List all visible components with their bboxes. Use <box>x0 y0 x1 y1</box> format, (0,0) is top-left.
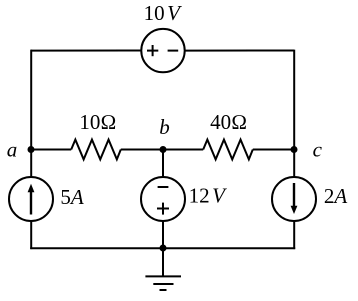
ground <box>145 248 181 290</box>
wire left vertical upper (top rail to node a) <box>30 50 32 150</box>
wire left vertical lower (5A source to bottom rail) <box>30 150 32 178</box>
svg-text:2A: 2A <box>324 184 348 208</box>
node a (junction dot) <box>28 146 35 153</box>
svg-text:b: b <box>159 115 170 139</box>
svg-text:12 V: 12 V <box>189 184 228 208</box>
wire 12V source to bottom rail <box>162 221 164 249</box>
svg-text:10Ω: 10Ω <box>79 110 116 134</box>
node c (junction dot) <box>291 146 298 153</box>
wire bottom rail <box>30 247 295 249</box>
wire right vertical upper (top rail to node c) <box>293 50 295 150</box>
svg-text:c: c <box>313 138 323 162</box>
wire top-left (top rail left segment) <box>31 50 141 52</box>
wire node b down to 12V source <box>162 150 164 178</box>
svg-text:10 V: 10 V <box>144 1 183 25</box>
wire right vertical lower (2A source to bottom rail) <box>293 150 295 178</box>
resistor 10Ω (between node a and node b) <box>71 140 121 160</box>
voltage source V1 10V (top, circle with + left and - right) <box>141 29 184 72</box>
node b (junction dot) <box>160 146 167 153</box>
wire middle: resistor 10Ω to resistor 40Ω through node b <box>121 149 203 151</box>
resistor 40Ω (between node b and node c) <box>203 140 253 160</box>
node ground junction (dot on bottom rail) <box>160 245 167 252</box>
svg-text:40Ω: 40Ω <box>210 110 247 134</box>
current source I2 2A (right branch, arrow down) <box>272 177 316 221</box>
voltage source V2 12V (middle branch, - top + bottom) <box>141 177 185 221</box>
svg-text:5A: 5A <box>60 185 84 209</box>
wire middle: resistor 40Ω to node c <box>253 149 294 151</box>
current source I1 5A (left branch, arrow up) <box>9 177 53 221</box>
wire middle: node a to resistor 10Ω <box>31 149 71 151</box>
wire top-right (top rail right segment) <box>185 50 294 52</box>
svg-text:a: a <box>7 137 18 161</box>
